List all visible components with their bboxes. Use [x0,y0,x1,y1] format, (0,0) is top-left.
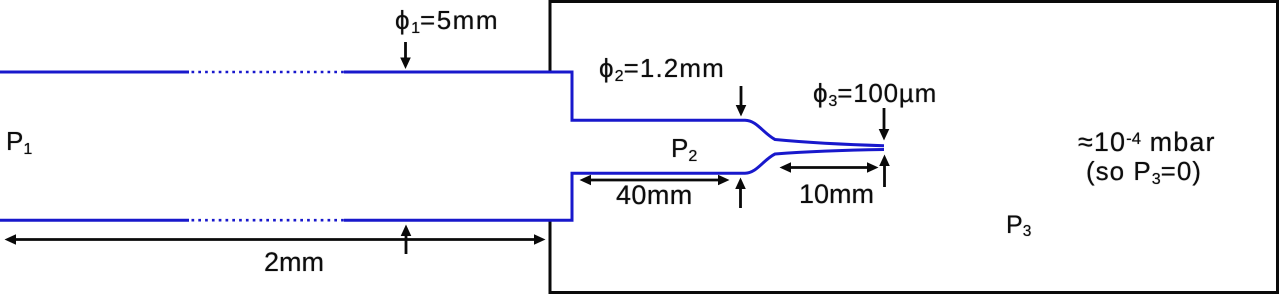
label phi1=5mm [395,5,499,36]
dimension arrow: phi3 pointer up to nozzle tip bottom [879,155,890,188]
dimension arrow: phi2 pointer down to 1.2mm tube top wall [736,86,747,117]
dimension arrow: phi1 pointer up to bottom wall [401,225,412,255]
label P1 (pressure region 1) [6,126,32,157]
capillary tube top wall: dotted break segment [192,71,346,74]
label (so P3=0) [1086,156,1202,187]
label phi3=100um [813,78,937,109]
label P3 (pressure region 3) [1006,211,1031,240]
dimension arrow: phi3 pointer down to nozzle tip top [879,108,890,141]
capillary tube top wall: right segment, step down, 1.2mm tube, taper to nozzle tip [344,72,884,146]
label phi2=1.2mm [599,53,725,84]
capillary tube bottom wall: solid left segment [0,219,189,222]
dimension arrow: 2mm double-headed horizontal [5,234,546,245]
dimension arrow: phi2 pointer up to 1.2mm tube bottom wall [735,178,746,209]
label approx 1e-4 mbar [1078,127,1216,158]
label 10mm [799,179,874,210]
label 2mm [264,247,324,278]
dimension arrow: phi1 pointer down to top wall [400,42,411,69]
vacuum chamber wall (black rectangle, open at tube entry) [550,2,1278,293]
capillary tube bottom wall: right segment, step up, 1.2mm tube, taper to nozzle tip [344,150,884,221]
capillary tube top wall: solid left segment [0,71,189,74]
capillary tube bottom wall: dotted break segment [192,219,346,222]
dimension arrow: 10mm double-headed horizontal [780,162,879,173]
dimension arrow: 40mm double-headed horizontal [580,175,730,186]
label P2 (pressure region 2) [671,133,697,164]
label 40mm [616,180,693,211]
